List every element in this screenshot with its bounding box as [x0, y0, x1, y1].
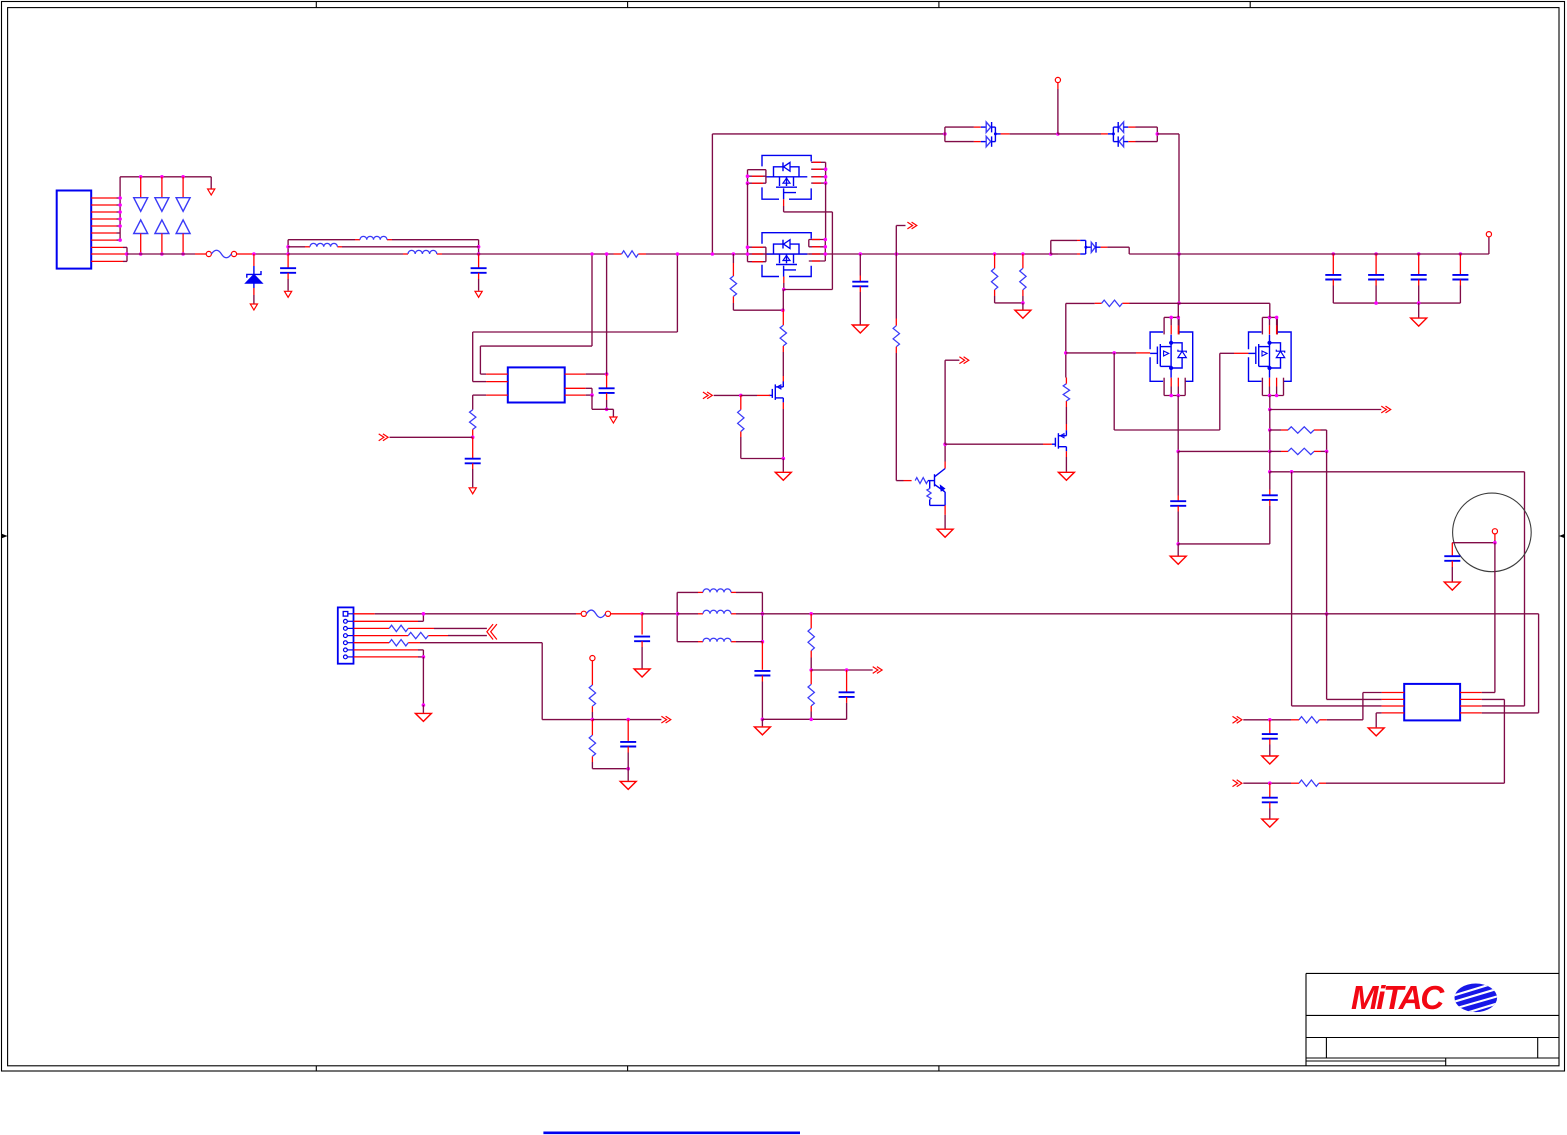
wire M2 drain bus	[1269, 396, 1271, 410]
junction J1 bus 4	[118, 217, 122, 221]
J2 pin3 stub	[354, 627, 390, 629]
wire M1-M2 tie	[1178, 450, 1270, 452]
resistor R12 upper lead	[1022, 254, 1024, 268]
wire red D5 in	[1101, 133, 1108, 135]
diode D5b	[1119, 136, 1124, 146]
capacitor C5 lead	[472, 437, 474, 458]
wire right pin bus Q1-Q2	[825, 183, 827, 239]
mosfet package Q2 gate structure	[776, 254, 797, 264]
diode D5 leads red	[1128, 127, 1135, 142]
junction output cap 2 top	[1374, 252, 1378, 256]
mosfet package Q2 source tab	[784, 266, 796, 277]
inductor L2	[310, 243, 337, 246]
capacitor C10 lower lead	[641, 641, 643, 668]
capacitor CO2	[1368, 275, 1384, 280]
junction output cap 4 top	[1459, 252, 1463, 256]
diode D5 leads blue	[1124, 127, 1129, 142]
Q3 gate lead red	[757, 394, 770, 396]
offpage arrow pins34	[487, 624, 497, 639]
diode D5a bar	[1117, 122, 1119, 132]
junction Q3 gate node	[739, 394, 743, 398]
inductor L1	[360, 236, 387, 239]
wire R13 to bus	[1130, 302, 1180, 304]
wire gnd tie row	[1178, 543, 1270, 545]
wire diode loop1 frame	[945, 127, 974, 142]
wire red D4 out	[1001, 133, 1010, 135]
resistor R15 out red	[428, 635, 448, 637]
J2 pin7 circle	[344, 655, 354, 659]
wire vsense row	[811, 669, 873, 671]
capacitor CX lead 288.1	[287, 254, 289, 268]
resistor R7	[780, 325, 786, 346]
resistor R16	[389, 640, 408, 646]
offpage arrow sense out	[661, 716, 670, 723]
wire main line EMI to PWM area	[479, 253, 614, 255]
ground C5	[469, 488, 476, 494]
M1 gate lead red	[1136, 352, 1150, 354]
junction snubber node	[781, 308, 785, 312]
wire drive to Q5 gate	[945, 443, 1043, 445]
junction main line col 2	[160, 252, 164, 256]
capacitor C13 lower lead	[846, 697, 848, 719]
Q5 drain lead	[1065, 424, 1067, 430]
title block outline	[1306, 973, 1559, 1065]
wire J2 pin2 tie	[418, 614, 423, 622]
resistor R12	[1020, 268, 1026, 290]
border center arrow right	[1559, 534, 1565, 538]
wire sense bus down	[1326, 451, 1328, 614]
Q1 drain tab lead	[783, 199, 785, 212]
wire red T1 lead	[1494, 534, 1496, 540]
resistor R14	[389, 625, 408, 631]
capacitor C8	[1170, 501, 1186, 506]
wire bias chevron arm	[896, 226, 905, 255]
ground R11/R12	[1015, 310, 1031, 318]
U1 pin 6 stub	[565, 394, 586, 396]
wire R21 to U2	[1327, 719, 1363, 721]
capacitor C9	[1262, 495, 1278, 500]
capacitor CX gnd lead 288.1	[287, 273, 289, 291]
offpage arrow M2 out	[1381, 406, 1390, 413]
junction Q2 left pin1	[746, 245, 750, 249]
resistor R22 leads red	[1291, 782, 1326, 784]
Q1 left pin box	[748, 170, 766, 184]
junction C8 gnd node	[1176, 542, 1180, 546]
junction feedback row left	[1268, 470, 1272, 474]
junction top rail col 1	[139, 175, 143, 179]
junction mosfet M1 top1	[1169, 316, 1173, 320]
M2 gate lead red	[1234, 352, 1249, 354]
wire M2 bus seg3	[1269, 430, 1271, 451]
wire M2 bus seg4	[1269, 451, 1271, 471]
J2 pin3 circle	[344, 627, 354, 631]
junction Q1 right pin3	[824, 175, 828, 179]
wire R19 bottom	[810, 658, 812, 671]
U2 left pin stub y712.9	[1382, 712, 1405, 714]
mosfet package Q2 body arrow	[783, 256, 790, 261]
junction Ra left	[1268, 428, 1272, 432]
junction J1 bus 5	[118, 224, 122, 228]
resistor R13 leads red	[1095, 302, 1130, 304]
junction Rb right	[1325, 450, 1329, 454]
junction J1 bus 3	[118, 210, 122, 214]
wire Rb left stub	[1270, 450, 1281, 452]
J2 pin4 circle	[344, 634, 354, 638]
junction pin7 tie	[422, 655, 426, 659]
border zone tick bottom 2	[627, 1066, 629, 1071]
junction mosfet M1 bot1	[1169, 394, 1173, 398]
wire gate supply row	[1066, 302, 1095, 304]
wire red after F2	[611, 613, 643, 615]
connector J2	[338, 607, 354, 663]
mosfet package Q1 gate structure	[776, 177, 797, 187]
ground C16	[1262, 819, 1278, 827]
junction mosfet M1 top2	[1177, 316, 1181, 320]
junction node R5/C5	[471, 436, 475, 440]
IC U1	[508, 367, 565, 402]
ground divider	[620, 781, 636, 789]
offpage arrow FB in	[379, 434, 388, 441]
diode D1a	[134, 198, 148, 212]
junction Q1 gate pin	[746, 174, 750, 178]
wire EMI top rail	[288, 239, 479, 241]
wire fuse to EMI filter	[252, 253, 288, 255]
U1 pin 7 stub	[565, 387, 586, 389]
capacitor C10 lead red	[641, 614, 643, 635]
wire red after fuse	[237, 253, 252, 255]
junction R20 gnd	[809, 718, 813, 722]
diode D1a lead	[140, 177, 142, 198]
resistor R21	[1299, 717, 1319, 723]
diode D4b bar	[991, 136, 993, 146]
capacitor CO3	[1411, 275, 1427, 280]
junction EMI right main	[477, 252, 481, 256]
diode D4 leads red	[974, 127, 981, 142]
J1 pin 4 stub	[91, 218, 120, 220]
wire U1 pin3 feed	[473, 395, 486, 410]
resistor Ra	[1288, 427, 1314, 433]
resistor R9 upper lead	[895, 319, 897, 326]
wire sense bus lower	[1326, 614, 1328, 699]
wire M1 cap feed	[1177, 451, 1179, 495]
J1 pin 8 stub	[91, 246, 127, 248]
wire main line to fuse	[127, 253, 195, 255]
junction mosfet M2 top2	[1275, 316, 1279, 320]
ground rc network	[754, 727, 770, 735]
junction Q1 right pin4	[824, 181, 828, 185]
wire diode loop2 frame	[1136, 127, 1158, 142]
junction vsense node	[809, 668, 813, 672]
wire ind top rail	[677, 591, 762, 593]
junction EMI left main	[286, 252, 290, 256]
capacitor C14	[1444, 556, 1460, 561]
junction EMI left mid	[286, 245, 290, 249]
wire gate drive	[714, 394, 741, 396]
wire output cap gnd rail	[1333, 302, 1460, 304]
wire crosscouple	[1114, 353, 1234, 430]
junction vsense cap	[845, 668, 849, 672]
capacitor CX at 288.1	[280, 268, 296, 273]
capacitor C6	[599, 388, 615, 393]
wire red P3 lead	[591, 661, 593, 685]
wire Q3 source down	[782, 409, 784, 459]
resistor R18 lower lead	[591, 756, 593, 762]
mosfet M1 body	[1150, 332, 1193, 381]
junction Q2 right pin1	[824, 238, 828, 242]
inductor L3	[408, 250, 437, 254]
J1 pin 2 stub	[91, 204, 120, 206]
capacitor CO4	[1452, 275, 1468, 280]
junction main Vcc bus	[605, 252, 609, 256]
mosfet package Q1 body arrow	[783, 178, 790, 183]
capacitor C11 upper lead	[627, 720, 629, 741]
U2 right pin stub y692.5	[1460, 692, 1482, 694]
diode D4 leads blue	[981, 127, 986, 142]
junction C7 top	[859, 252, 863, 256]
mosfet M2 gate	[1249, 344, 1270, 366]
resistor R8	[738, 410, 744, 432]
junction T1 node	[1493, 541, 1497, 545]
border zone tick bottom 3	[938, 1066, 940, 1071]
wire M2 out row	[1270, 409, 1382, 411]
junction mosfet M2 bot1	[1268, 394, 1272, 398]
junction gnd rail 1	[1374, 301, 1378, 305]
ground C7	[852, 325, 868, 333]
inductor L6 leads red	[698, 641, 736, 643]
Q2 left pin box	[748, 247, 766, 262]
junction switch node	[782, 288, 786, 292]
wire M2 bus seg2	[1269, 410, 1271, 431]
wire U1 pin2 feed	[473, 254, 678, 382]
resistor R13	[1102, 300, 1123, 306]
resistor R15	[408, 632, 428, 638]
junction reg line1 cap	[1268, 718, 1272, 722]
mosfet M2 body	[1249, 332, 1292, 381]
capacitor CO2 upper lead	[1375, 254, 1377, 275]
ground CX at 288.1	[285, 291, 292, 297]
capacitor CX at 478.6	[471, 268, 487, 273]
junction J1 bus 6	[118, 238, 122, 242]
resistor R11 lower lead	[994, 290, 996, 296]
mosfet M1 channel	[1170, 335, 1173, 378]
wire left pin bus Q1-Q2	[747, 183, 749, 247]
U1 pin 2 stub	[486, 381, 508, 383]
diode D4b	[986, 136, 991, 146]
U1 pin 3 stub	[486, 394, 508, 396]
resistor R17	[589, 685, 595, 706]
capacitor CO1	[1325, 275, 1341, 280]
junction zener node	[252, 252, 256, 256]
wire output rail right drop	[1482, 614, 1539, 713]
capacitor CO4 lower lead	[1459, 280, 1461, 304]
J2 pin5 stub	[354, 642, 390, 644]
regulator U2	[1404, 684, 1460, 721]
wire right bus lower	[1178, 254, 1180, 303]
wire R gnd stub	[1022, 303, 1024, 310]
Q3 source lead	[782, 402, 784, 409]
capacitor C14 lower lead	[1451, 561, 1453, 582]
wire ind bottom rail	[677, 641, 762, 643]
diode D2a lead	[161, 177, 163, 198]
capacitor C8 lower lead	[1177, 506, 1179, 544]
wire pin4 signal	[448, 635, 487, 637]
junction output cap 3 top	[1417, 252, 1421, 256]
mosfet M2 bottom pin box	[1262, 378, 1283, 396]
diode D1b	[134, 220, 148, 234]
capacitor C9 lower lead	[1269, 500, 1271, 544]
wire U1 pin7 down	[586, 388, 592, 395]
wire U1 pin6 join	[586, 394, 592, 396]
Q1 right pin box	[811, 162, 825, 183]
U2 right pin stub y712.9	[1460, 712, 1482, 714]
U2 left pin stub y699.4	[1382, 698, 1405, 700]
junction ind right main	[761, 612, 765, 616]
test point pin TP1	[1055, 77, 1060, 82]
wire sense node out	[592, 719, 661, 721]
mosfet M2 body diode	[1270, 343, 1285, 368]
capacitor CO3 lower lead	[1418, 280, 1420, 304]
capacitor C12	[754, 671, 770, 676]
junction Q2 left pin2 main	[746, 252, 750, 256]
junction divider top	[809, 612, 813, 616]
junction U1 pin6/7	[590, 393, 594, 397]
offpage arrow reg in1	[1233, 716, 1242, 723]
wire red fuse approach	[195, 253, 206, 255]
wire R6 to snubber node	[733, 303, 783, 310]
Q5 source lead	[1065, 451, 1067, 472]
diode D3b	[176, 220, 190, 234]
capacitor C16 lower lead	[1269, 802, 1271, 818]
wire Q1 tab jog	[784, 211, 833, 213]
capacitor C13	[839, 692, 855, 697]
junction top rail right loop	[1156, 132, 1160, 136]
wire U2 R2 drop	[1482, 699, 1505, 783]
diode D5 junction bar	[1108, 127, 1118, 142]
wire red L3 leads	[403, 253, 442, 255]
junction Q1 src pin	[746, 181, 750, 185]
offpage arrow gate drive	[703, 392, 712, 399]
wire loop right drop	[1482, 472, 1525, 706]
mosfet package Q1 channel	[766, 176, 807, 178]
wire top rail to right bus	[1157, 134, 1179, 254]
J1 pin 1 stub	[91, 197, 120, 199]
junction reg line2 cap	[1268, 781, 1272, 785]
junction Rb left	[1268, 450, 1272, 454]
BJT Q4 base resistor	[915, 478, 928, 484]
wire R10 to Q5	[1065, 407, 1067, 424]
wire red R4 leads	[614, 253, 647, 255]
J2 pin5 circle	[344, 641, 354, 645]
wire U1 pin1 feed	[480, 254, 592, 374]
output pin P2	[1486, 232, 1491, 237]
junction Q2 right pin2	[824, 245, 828, 249]
capacitor CX gnd lead 478.6	[478, 273, 480, 291]
capacitor C6 lead	[606, 374, 608, 388]
BJT Q4 collector lead	[944, 462, 946, 469]
resistor R9	[893, 326, 899, 347]
wire output rail	[762, 613, 1538, 615]
junction sense bus main	[1325, 612, 1329, 616]
junction main U1 pin1 bus	[590, 252, 594, 256]
junction gate supply node	[1177, 301, 1181, 305]
J1 pin 7 stub	[91, 239, 120, 241]
diode D6 bar	[1096, 242, 1101, 253]
MITAC logo globe	[1450, 982, 1502, 1016]
offpage arrow reg in2	[1233, 780, 1242, 787]
inductor L6	[703, 638, 731, 642]
wire EMI left post	[287, 240, 289, 254]
mosfet package Q2 body diode	[774, 240, 800, 254]
wire red TP1	[1057, 83, 1059, 89]
wire Ra left stub	[1270, 429, 1281, 431]
wire gate row M1	[1066, 352, 1136, 354]
J1 pin 6 stub	[91, 232, 120, 234]
junction mosfet M2 bot2	[1275, 394, 1279, 398]
mosfet Q5	[1052, 430, 1067, 451]
resistor R20	[808, 684, 814, 706]
mosfet M2 channel	[1268, 335, 1271, 378]
capacitor C5	[465, 459, 481, 464]
inductor L4 leads red	[698, 591, 736, 593]
resistor R20 lower lead	[810, 706, 812, 712]
wire R12 bottom	[1022, 296, 1024, 303]
wire J2 pin6 tie	[418, 650, 423, 657]
wire Vcc bus	[606, 254, 608, 374]
diode D4a	[986, 122, 991, 132]
resistor R19 upper lead	[810, 614, 812, 629]
diode D4 junction bar	[992, 127, 1001, 142]
diode D6 merge bracket	[1080, 240, 1091, 254]
ground C10	[634, 669, 650, 677]
junction mosfet M2 top1	[1268, 316, 1272, 320]
mosfet M1 gate	[1150, 344, 1171, 366]
mosfet package Q1 body	[762, 155, 811, 199]
resistor R5 lower lead	[472, 430, 474, 438]
wire pin7 gnd stub	[422, 705, 424, 713]
J1 pin 9 stub	[91, 253, 127, 255]
ground CX at 478.6	[475, 291, 482, 297]
capacitor C12 lower lead	[761, 676, 763, 720]
ground Q3	[775, 472, 791, 480]
capacitor CO2 lower lead	[1375, 280, 1377, 304]
mosfet M1 bottom pin box	[1164, 378, 1185, 396]
wire rc gnd stub	[761, 719, 763, 726]
zener ground lead	[253, 288, 255, 304]
resistor R5	[470, 410, 476, 430]
wire ind block left post	[676, 592, 678, 641]
mosfet M2 top pin box	[1262, 317, 1277, 334]
ground J2	[415, 713, 431, 721]
border zone tick top 3	[938, 2, 940, 8]
junction mosfet M1 bot2	[1177, 394, 1181, 398]
capacitor C15	[1262, 734, 1278, 739]
J2 pin7 stub	[354, 656, 419, 658]
wire feedback drop	[1292, 472, 1382, 706]
junction R6 top	[732, 252, 736, 256]
wire switch node down	[782, 290, 784, 311]
wire drive chevron arm	[945, 360, 959, 444]
diode D1b lead	[140, 234, 142, 255]
wire U1 pin8 to bus	[586, 373, 607, 375]
offpage arrow aux supply	[907, 222, 916, 229]
sense pin P3	[590, 656, 595, 661]
junction R11 top	[993, 252, 997, 256]
zener D7 lead	[253, 254, 255, 266]
wire rc bottom rail	[762, 718, 846, 720]
junction main right bus	[1177, 252, 1181, 256]
resistor R8 upper lead	[740, 395, 742, 409]
junction bias bus main	[895, 252, 899, 256]
